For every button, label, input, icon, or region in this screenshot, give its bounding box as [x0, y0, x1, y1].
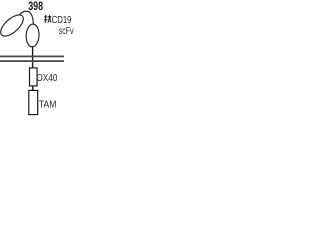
svg-text:OX40: OX40 [36, 73, 57, 84]
membrane line top [0, 55, 64, 57]
stem wire OX40 to ITAM [32, 86, 34, 91]
svg-text:scFv: scFv [59, 26, 74, 37]
svg-text:398: 398 [28, 0, 43, 13]
svg-text:CD19: CD19 [52, 15, 72, 26]
ITAM domain box [29, 90, 38, 114]
scFv VL domain (tilted ellipse) [0, 11, 27, 40]
stem wire ellipse to OX40 [32, 47, 34, 69]
OX40 domain box [30, 68, 38, 86]
label anti-CD19 (CJK 抗 drawn as strokes) [44, 15, 51, 23]
linker wire [20, 11, 33, 24]
svg-text:ITAM: ITAM [37, 100, 57, 111]
membrane line bottom [0, 60, 64, 62]
scFv VH domain (vertical ellipse) [26, 24, 40, 47]
